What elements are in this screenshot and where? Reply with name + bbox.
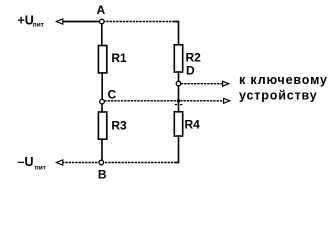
power +Upit arrowhead (56, 19, 63, 24)
text to key device line 1 (239, 73, 328, 87)
node A (97, 3, 106, 24)
arrowhead output D (223, 81, 229, 86)
wire bottom rail B to right corner (62, 162, 179, 164)
wire top rail A to right corner (62, 21, 179, 23)
arrowhead output C (224, 98, 230, 103)
resistor R2 (174, 45, 201, 72)
node B (98, 160, 107, 181)
svg-text:R2: R2 (186, 51, 202, 65)
wire output from node D (181, 83, 223, 85)
power label +Upit (18, 14, 44, 29)
power label -Upit (18, 155, 46, 172)
text to key device line 2 (239, 89, 318, 103)
resistor R4 (174, 112, 200, 136)
wire output from node C (104, 100, 224, 102)
wire R2 to node D (178, 72, 180, 81)
resistor R3 (98, 112, 127, 139)
node D (176, 64, 195, 86)
svg-text:B: B (98, 168, 107, 182)
power -Upit arrowhead (56, 160, 63, 165)
svg-text:D: D (186, 64, 195, 78)
svg-text:A: A (97, 3, 106, 17)
wire R3 to node B (101, 139, 103, 160)
svg-text:к ключевому: к ключевому (239, 73, 328, 87)
junction ticks at crossing of C wire and D-R4 wire (175, 99, 183, 104)
wire node D down through crossing to R4 (178, 86, 180, 112)
wire R1 to node C (101, 73, 103, 99)
svg-text:пит: пит (35, 165, 46, 172)
svg-text:пит: пит (33, 22, 44, 29)
svg-text:C: C (108, 88, 117, 102)
wire R4 to bottom right corner (175, 136, 179, 163)
svg-text:–U: –U (18, 155, 34, 169)
svg-text:R3: R3 (111, 119, 127, 133)
resistor R1 (98, 46, 127, 73)
node C (100, 88, 117, 104)
wire right branch top segment (corner to R2) (175, 22, 179, 45)
wire node A to R1 (101, 24, 103, 46)
svg-text:+U: +U (18, 14, 34, 28)
svg-text:устройству: устройству (239, 89, 318, 103)
svg-text:R4: R4 (185, 118, 201, 132)
svg-text:R1: R1 (111, 51, 127, 65)
wire node C to R3 (101, 104, 103, 112)
